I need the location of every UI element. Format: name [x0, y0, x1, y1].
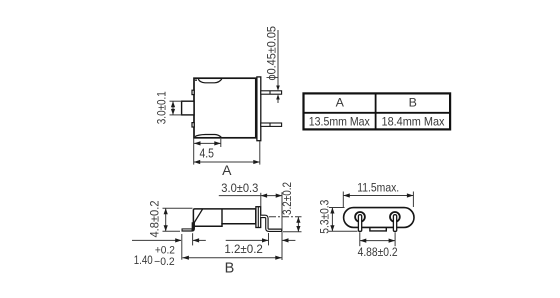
- dimension 1.40 +0.2/-0.2: [132, 233, 206, 260]
- flange: [257, 77, 261, 141]
- body outline: [193, 209, 255, 226]
- svg-text:−0.2: −0.2: [154, 256, 175, 268]
- svg-text:A: A: [336, 96, 345, 110]
- crimp lens top: [198, 79, 222, 83]
- lead bottom: [261, 123, 282, 126]
- svg-text:18.4mm Max: 18.4mm Max: [382, 114, 446, 128]
- svg-text:3.0±0.1: 3.0±0.1: [155, 91, 169, 124]
- dimension 1.2±0.2: [226, 233, 296, 245]
- dimension 5.3±0.3: [329, 208, 358, 232]
- notch: [370, 227, 386, 231]
- dimension 3.0±0.3: [219, 192, 282, 260]
- weld bump upper: [192, 90, 194, 94]
- svg-text:A: A: [222, 162, 232, 178]
- left lead foot: [182, 222, 194, 230]
- diagonal: [194, 209, 203, 223]
- lead circle left: [355, 212, 365, 222]
- crimp lens bottom: [195, 135, 222, 138]
- lead stub right: [393, 215, 396, 232]
- can body: [194, 78, 256, 138]
- corner mark: [195, 79, 197, 81]
- svg-text:1.2±0.2: 1.2±0.2: [224, 242, 263, 256]
- svg-text:5.3±0.3: 5.3±0.3: [319, 200, 331, 234]
- dimension B: [182, 257, 281, 259]
- dimension φ0.45±0.05: [277, 30, 279, 103]
- svg-text:1.40: 1.40: [134, 253, 153, 267]
- svg-text:4.5: 4.5: [199, 147, 214, 161]
- lead circle right: [390, 212, 400, 222]
- dimension 4.5: [194, 139, 221, 147]
- tab: [182, 101, 194, 115]
- dimension 4.88±0.2: [360, 232, 395, 246]
- flange side: [256, 207, 261, 228]
- divider: [221, 209, 223, 224]
- lead stub left: [358, 215, 361, 232]
- dimension A: [194, 138, 260, 165]
- dimension 3.2±0.2: [269, 217, 302, 232]
- weld bump lower: [192, 123, 194, 127]
- svg-text:B: B: [409, 96, 417, 110]
- svg-text:3.2±0.2: 3.2±0.2: [282, 182, 294, 215]
- svg-text:ϕ0.45±0.05: ϕ0.45±0.05: [267, 26, 279, 81]
- svg-text:11.5max.: 11.5max.: [357, 180, 399, 194]
- right lead Z: [261, 216, 282, 230]
- lead top: [261, 91, 282, 94]
- svg-text:4.8±0.2: 4.8±0.2: [147, 200, 161, 237]
- stadium body: [344, 208, 414, 228]
- svg-text:4.88±0.2: 4.88±0.2: [358, 245, 398, 259]
- dimension 3.0±0.1: [170, 101, 182, 115]
- svg-text:13.5mm Max: 13.5mm Max: [309, 114, 371, 128]
- dimension 4.8±0.2: [163, 208, 193, 231]
- svg-text:+0.2: +0.2: [155, 244, 175, 256]
- svg-text:3.0±0.3: 3.0±0.3: [221, 181, 258, 195]
- svg-text:B: B: [225, 261, 235, 277]
- dimension 11.5max.: [343, 192, 413, 208]
